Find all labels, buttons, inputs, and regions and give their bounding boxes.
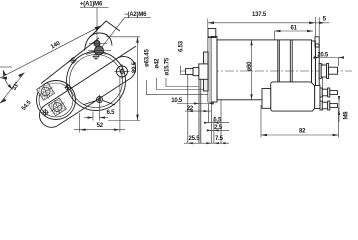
svg-text:82: 82	[299, 129, 306, 135]
svg-text:5.5: 5.5	[213, 118, 222, 124]
svg-text:2.5: 2.5	[214, 125, 223, 131]
svg-text:137.5: 137.5	[252, 12, 267, 18]
svg-text:ø15.75: ø15.75	[165, 57, 171, 75]
svg-text:61: 61	[291, 26, 298, 32]
svg-text:ø60: ø60	[247, 61, 253, 72]
svg-text:−(A2)M6: −(A2)M6	[124, 12, 147, 18]
svg-text:ø42: ø42	[155, 58, 161, 69]
svg-text:M8: M8	[344, 111, 350, 120]
svg-text:6.53: 6.53	[179, 40, 185, 52]
svg-text:ø63.45: ø63.45	[144, 49, 150, 67]
svg-text:52: 52	[97, 123, 104, 129]
svg-text:25.5: 25.5	[189, 136, 201, 142]
svg-text:22: 22	[187, 106, 194, 112]
svg-text:7.5: 7.5	[215, 136, 224, 142]
svg-text:10.5: 10.5	[171, 98, 183, 104]
svg-text:89.5: 89.5	[132, 61, 138, 73]
svg-text:20.5: 20.5	[317, 52, 329, 58]
svg-text:+(A1)M6: +(A1)M6	[80, 2, 103, 8]
svg-text:6.5: 6.5	[107, 110, 116, 116]
